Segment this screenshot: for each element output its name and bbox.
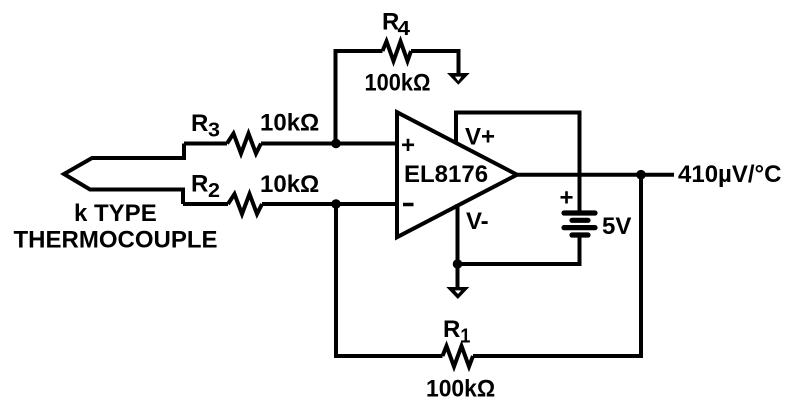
svg-text:5V: 5V bbox=[602, 213, 631, 240]
battery plate short bbox=[572, 218, 588, 223]
svg-text:EL8176: EL8176 bbox=[404, 161, 488, 188]
resistor R4 bbox=[383, 41, 412, 61]
resistor R2 bbox=[228, 194, 262, 214]
node: output junction bbox=[636, 170, 646, 180]
wire: R3 left lead bbox=[184, 142, 227, 146]
wire: R2 left lead bbox=[183, 202, 228, 206]
resistor R1 bbox=[443, 346, 474, 367]
wire: V- pin lead down to ground bbox=[456, 204, 460, 288]
wire: output from op-amp apex bbox=[517, 173, 674, 177]
resistor R3 bbox=[227, 134, 261, 154]
svg-text:R1: R1 bbox=[443, 316, 470, 347]
svg-text:10kΩ: 10kΩ bbox=[260, 171, 319, 198]
wire: V+ pin lead bbox=[456, 113, 580, 214]
svg-text:R4: R4 bbox=[382, 9, 411, 40]
svg-text:R3: R3 bbox=[191, 110, 220, 141]
svg-text:+: + bbox=[401, 132, 415, 159]
node: V- / ground junction bbox=[453, 259, 463, 269]
svg-text:100kΩ: 100kΩ bbox=[426, 376, 495, 403]
svg-text:410µV/°C: 410µV/°C bbox=[678, 161, 781, 188]
wire: R2 to op-amp - input bbox=[262, 202, 397, 206]
thermocouple junction (k type) bbox=[64, 144, 184, 205]
node: non-inverting input junction bbox=[331, 139, 341, 149]
svg-text:k TYPE: k TYPE bbox=[74, 200, 157, 227]
svg-text:THERMOCOUPLE: THERMOCOUPLE bbox=[14, 227, 218, 254]
svg-text:R2: R2 bbox=[191, 171, 220, 202]
svg-text:+: + bbox=[560, 185, 574, 212]
op-amp U1 EL8176 bbox=[397, 112, 517, 237]
svg-text:100kΩ: 100kΩ bbox=[365, 70, 431, 97]
wire: R4 right lead to ground bbox=[411, 51, 459, 74]
battery plate short bottom bbox=[572, 232, 588, 237]
wire: feedback left to inverting node bbox=[336, 204, 443, 356]
svg-text:10kΩ: 10kΩ bbox=[260, 110, 319, 137]
battery plate long bbox=[564, 225, 595, 230]
node: inverting input junction bbox=[331, 199, 341, 209]
wire: R4 left vertical (to + input node) bbox=[336, 51, 383, 144]
wire: feedback right vertical bbox=[473, 175, 641, 356]
svg-text:V-: V- bbox=[466, 208, 489, 235]
wire: battery bottom lead and V- rail bbox=[458, 235, 580, 264]
label - input bbox=[403, 203, 414, 207]
battery plate long top bbox=[564, 210, 595, 215]
wire: R3 to op-amp + input bbox=[261, 142, 397, 146]
ground (top, R4) bbox=[447, 73, 470, 85]
ground (bottom, V-) bbox=[446, 287, 469, 299]
svg-text:V+: V+ bbox=[465, 124, 495, 151]
